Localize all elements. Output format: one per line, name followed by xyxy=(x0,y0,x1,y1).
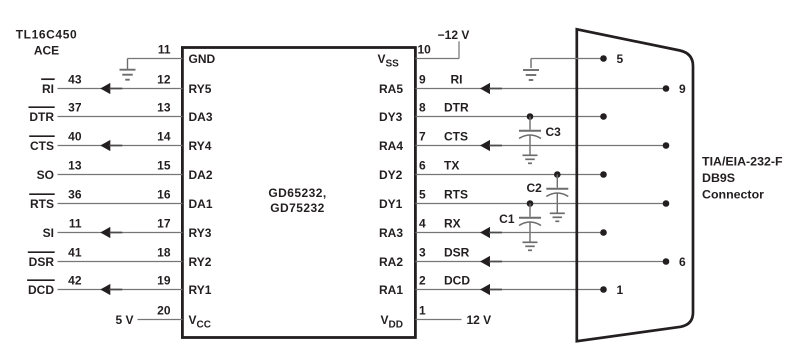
label TL16C450 ACE (left device) xyxy=(16,28,78,58)
svg-text:TIA/EIA-232-F: TIA/EIA-232-F xyxy=(702,155,783,169)
svg-text:DY2: DY2 xyxy=(379,168,403,182)
svg-text:9: 9 xyxy=(419,73,426,87)
svg-text:ACE: ACE xyxy=(34,43,59,57)
capacitor C1 xyxy=(519,204,541,242)
connector pin dot (DSR) xyxy=(663,258,670,265)
svg-text:13: 13 xyxy=(157,101,171,115)
wire SI to IC pin 17 xyxy=(58,232,183,234)
svg-text:RY5: RY5 xyxy=(189,82,212,96)
svg-text:11: 11 xyxy=(69,217,82,231)
capacitor C3 xyxy=(519,117,541,155)
arrowhead into RA3 xyxy=(480,227,502,238)
wire RA3 to connector xyxy=(415,232,603,234)
svg-text:GD65232,: GD65232, xyxy=(268,186,326,200)
svg-text:10: 10 xyxy=(418,43,432,57)
arrowhead into RA1 xyxy=(480,284,502,295)
svg-text:13: 13 xyxy=(68,159,82,173)
connector pin dot (CTS) xyxy=(663,142,670,149)
wire ground to connector pin 5 xyxy=(531,58,604,60)
svg-text:DA3: DA3 xyxy=(189,110,213,124)
connector pin dot (TX) xyxy=(600,171,607,178)
signal label SI (TL16C450 side) xyxy=(43,226,54,240)
wire VSS pin 10 to -12V xyxy=(415,41,459,58)
svg-text:CTS: CTS xyxy=(30,139,54,153)
svg-text:40: 40 xyxy=(68,130,82,144)
svg-text:15: 15 xyxy=(157,159,171,173)
junction node C1/RTS xyxy=(527,200,534,207)
ground for C2 xyxy=(550,213,565,221)
svg-text:RA1: RA1 xyxy=(379,283,403,297)
wire RA2 to connector xyxy=(415,261,666,263)
capacitor C2 xyxy=(546,175,568,213)
svg-text:42: 42 xyxy=(68,274,82,288)
svg-text:DY3: DY3 xyxy=(379,110,403,124)
svg-text:C3: C3 xyxy=(546,125,562,139)
connector pin 5 dot xyxy=(600,55,607,62)
connector pin dot (DCD) xyxy=(600,286,607,293)
svg-text:DA1: DA1 xyxy=(189,197,213,211)
svg-text:GD75232: GD75232 xyxy=(270,201,325,215)
svg-text:3: 3 xyxy=(419,246,426,260)
svg-text:DSR: DSR xyxy=(29,255,55,269)
connector pin dot (RX) xyxy=(600,229,607,236)
wire CTS to IC pin 14 xyxy=(58,145,183,147)
svg-text:RY2: RY2 xyxy=(189,255,212,269)
svg-text:DB9S: DB9S xyxy=(702,171,735,185)
svg-text:17: 17 xyxy=(157,217,171,231)
svg-text:C1: C1 xyxy=(499,212,515,226)
svg-text:RY3: RY3 xyxy=(189,226,212,240)
svg-text:TX: TX xyxy=(444,159,459,173)
svg-text:GND: GND xyxy=(189,52,216,66)
svg-text:RI: RI xyxy=(451,73,463,87)
svg-text:DA2: DA2 xyxy=(189,168,213,182)
svg-text:2: 2 xyxy=(419,274,426,288)
signal label SO (TL16C450 side) xyxy=(37,168,54,182)
svg-text:11: 11 xyxy=(158,43,171,57)
junction node C2/TX xyxy=(554,171,561,178)
wire DY1 to connector xyxy=(415,203,666,205)
wire DCD to IC pin 19 xyxy=(58,289,183,291)
svg-text:5 V: 5 V xyxy=(115,313,133,327)
svg-text:SI: SI xyxy=(43,226,54,240)
svg-text:DCD: DCD xyxy=(28,283,54,297)
svg-text:RA4: RA4 xyxy=(379,139,403,153)
svg-text:RTS: RTS xyxy=(444,188,468,202)
svg-text:4: 4 xyxy=(419,217,426,231)
ground for C1 xyxy=(523,242,538,250)
wire SO to IC pin 15 xyxy=(58,174,183,176)
IC U1 part number xyxy=(268,186,326,215)
svg-text:6: 6 xyxy=(679,255,686,269)
wire DSR to IC pin 18 xyxy=(58,261,183,263)
ground for C3 xyxy=(523,155,538,163)
svg-text:5: 5 xyxy=(419,188,426,202)
svg-text:DCD: DCD xyxy=(444,274,470,288)
svg-text:Connector: Connector xyxy=(702,188,764,202)
svg-text:DY1: DY1 xyxy=(379,197,403,211)
ground at IC pin 11 xyxy=(120,59,136,80)
svg-text:RY4: RY4 xyxy=(189,139,212,153)
wire VDD pin 1 to 12V xyxy=(415,319,461,321)
svg-text:1: 1 xyxy=(419,304,426,318)
wire 5V to VCC pin 20 xyxy=(138,319,183,321)
svg-text:6: 6 xyxy=(419,159,426,173)
svg-text:18: 18 xyxy=(157,246,171,260)
svg-text:TL16C450: TL16C450 xyxy=(16,28,78,42)
connector pin dot (RI) xyxy=(663,85,670,92)
wire RA5 to connector xyxy=(415,88,666,90)
svg-text:C2: C2 xyxy=(526,181,542,195)
signal label CTS (TL16C450 side) xyxy=(29,136,55,153)
svg-text:43: 43 xyxy=(68,73,82,87)
svg-text:RTS: RTS xyxy=(30,197,54,211)
svg-text:36: 36 xyxy=(68,188,82,202)
DB9 connector J1 shell xyxy=(577,29,693,341)
wire DY3 to connector xyxy=(415,116,603,118)
svg-text:SO: SO xyxy=(37,168,54,182)
svg-text:RA5: RA5 xyxy=(379,82,403,96)
signal label DSR (TL16C450 side) xyxy=(28,252,55,269)
svg-text:RA2: RA2 xyxy=(379,255,403,269)
connector pin dot (DTR) xyxy=(600,113,607,120)
svg-text:20: 20 xyxy=(157,304,171,318)
signal label DTR (TL16C450 side) xyxy=(29,107,55,124)
svg-text:12 V: 12 V xyxy=(467,313,492,327)
svg-text:7: 7 xyxy=(419,130,426,144)
wire DTR to IC pin 13 xyxy=(58,116,183,118)
wire RA4 to connector xyxy=(415,145,666,147)
svg-text:RA3: RA3 xyxy=(379,226,403,240)
wire RA1 to connector xyxy=(415,289,603,291)
arrowhead into RA2 xyxy=(480,256,502,267)
connector pin dot (RTS) xyxy=(663,200,670,207)
svg-text:14: 14 xyxy=(157,130,171,144)
wire DY2 to connector xyxy=(415,174,603,176)
svg-text:−12 V: −12 V xyxy=(438,28,470,42)
arrowhead into RA5 xyxy=(480,83,502,94)
wire IC pin 11 GND stub xyxy=(128,58,183,60)
wire RI to IC pin 12 xyxy=(58,88,183,90)
svg-text:9: 9 xyxy=(679,82,686,96)
svg-text:DTR: DTR xyxy=(29,110,54,124)
signal label RTS (TL16C450 side) xyxy=(29,194,55,211)
ground at connector pin 5 xyxy=(523,59,539,81)
svg-text:RY1: RY1 xyxy=(189,283,212,297)
label TIA/EIA-232-F DB9S Connector xyxy=(702,155,783,202)
arrowhead output toward RI xyxy=(100,83,122,94)
svg-text:19: 19 xyxy=(157,274,171,288)
svg-text:RX: RX xyxy=(444,217,461,231)
arrowhead into RA4 xyxy=(480,140,502,151)
wire RTS to IC pin 16 xyxy=(58,203,183,205)
arrowhead output toward DCD xyxy=(100,284,122,295)
svg-text:37: 37 xyxy=(68,101,82,115)
signal label DCD (TL16C450 side) xyxy=(27,280,55,297)
svg-text:12: 12 xyxy=(157,73,171,87)
arrowhead output toward CTS xyxy=(100,140,122,151)
svg-text:8: 8 xyxy=(419,101,426,115)
svg-text:5: 5 xyxy=(617,52,624,66)
arrowhead output toward SI xyxy=(100,227,122,238)
IC U1 GD65232/GD75232 box xyxy=(182,48,415,338)
svg-text:16: 16 xyxy=(157,188,171,202)
signal label RI (TL16C450 side) xyxy=(41,79,55,96)
svg-text:CTS: CTS xyxy=(444,130,468,144)
svg-text:DTR: DTR xyxy=(444,101,469,115)
svg-text:1: 1 xyxy=(617,283,624,297)
svg-text:41: 41 xyxy=(68,246,82,260)
junction node C3/DTR xyxy=(527,113,534,120)
svg-text:RI: RI xyxy=(42,82,54,96)
svg-text:DSR: DSR xyxy=(444,246,470,260)
